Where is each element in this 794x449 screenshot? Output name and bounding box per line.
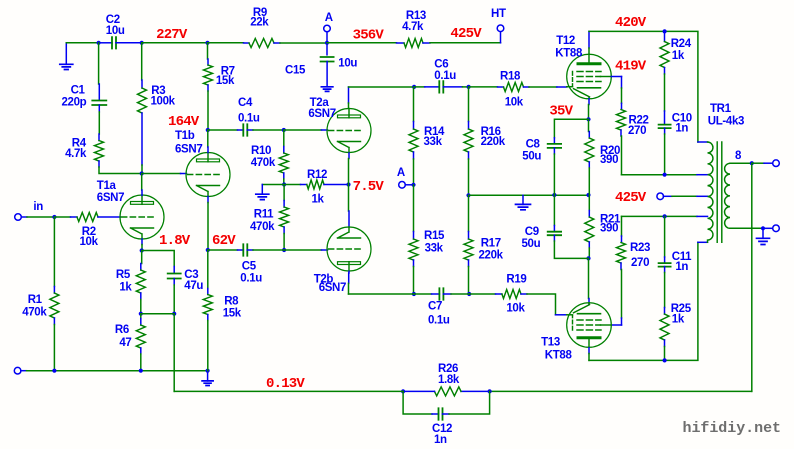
node R10 bottom bbox=[282, 182, 286, 186]
wire UL tap lower rail bbox=[622, 215, 698, 217]
svg-text:6SN7: 6SN7 bbox=[175, 144, 202, 156]
resistor R20 bbox=[588, 119, 590, 131]
resistor R7 bbox=[207, 43, 209, 59]
wire T2a anode lead bbox=[348, 87, 350, 103]
svg-text:C1: C1 bbox=[71, 85, 86, 97]
svg-text:C3: C3 bbox=[184, 269, 198, 281]
node R26 right bbox=[488, 389, 492, 393]
transformer TR1 primary bbox=[708, 142, 713, 242]
svg-text:470k: 470k bbox=[250, 221, 275, 233]
svg-text:10k: 10k bbox=[80, 236, 99, 248]
pentode T13 (mirrored) bbox=[567, 303, 612, 348]
node T1a cathode junction bbox=[140, 248, 144, 252]
wire input bbox=[21, 216, 27, 218]
node R26 left bbox=[401, 389, 405, 393]
pentode T12 bbox=[567, 54, 612, 99]
svg-text:10u: 10u bbox=[106, 25, 125, 37]
svg-text:in: in bbox=[33, 201, 43, 213]
resistor R8 bbox=[207, 250, 209, 289]
svg-text:R24: R24 bbox=[671, 38, 692, 50]
node R8 bottom ground bbox=[206, 369, 210, 373]
wire node A to R13 bbox=[327, 42, 397, 44]
resistor R13 bbox=[397, 42, 405, 44]
svg-text:10u: 10u bbox=[338, 57, 357, 69]
terminal in bbox=[15, 214, 22, 221]
wire rail to R9 bbox=[208, 42, 244, 44]
svg-text:R10: R10 bbox=[251, 145, 271, 157]
svg-text:0.1u: 0.1u bbox=[434, 70, 456, 82]
svg-text:33k: 33k bbox=[425, 243, 444, 255]
svg-text:C4: C4 bbox=[238, 97, 253, 109]
svg-text:390: 390 bbox=[600, 154, 618, 166]
capacitor C15 bbox=[326, 43, 328, 55]
ground (secondary) bbox=[762, 228, 764, 238]
wire R19 to T13 grid bbox=[527, 294, 556, 315]
svg-text:C6: C6 bbox=[434, 59, 448, 71]
wire to R18 bbox=[469, 86, 498, 88]
resistor R14 bbox=[413, 87, 415, 122]
wire T2b anode rail bbox=[349, 293, 414, 295]
svg-text:0.1u: 0.1u bbox=[238, 113, 260, 125]
wire T2b anode lead bbox=[348, 271, 350, 273]
triode T1b bbox=[186, 153, 230, 197]
wire secondary bottom bbox=[730, 227, 763, 229]
svg-text:1n: 1n bbox=[675, 261, 688, 273]
transformer TR1 secondary bbox=[725, 163, 730, 228]
wire center tap bbox=[663, 195, 672, 197]
svg-text:356V: 356V bbox=[353, 28, 385, 44]
svg-text:T12: T12 bbox=[556, 35, 575, 47]
node feedback node X right bbox=[172, 312, 176, 316]
wire T13 cathode lead bbox=[588, 258, 590, 298]
svg-text:50u: 50u bbox=[522, 238, 541, 250]
resistor R3 bbox=[141, 43, 143, 80]
resistor R11 bbox=[283, 185, 285, 201]
terminal output plus bbox=[752, 162, 764, 164]
node R6 bottom bbox=[139, 369, 143, 373]
resistor R17 bbox=[468, 195, 470, 231]
resistor R2 bbox=[71, 216, 78, 218]
svg-text:R6: R6 bbox=[115, 324, 129, 336]
terminal ground input bbox=[14, 367, 21, 374]
svg-text:227V: 227V bbox=[156, 27, 188, 43]
svg-text:164V: 164V bbox=[168, 114, 200, 130]
resistor R10 bbox=[283, 130, 285, 147]
node R20 R21 junction bbox=[586, 193, 590, 197]
transformer TR1 core bbox=[717, 142, 722, 242]
node R7 top junction bbox=[205, 41, 209, 45]
svg-text:7.5V: 7.5V bbox=[353, 179, 385, 195]
svg-text:470k: 470k bbox=[22, 307, 47, 319]
svg-text:R8: R8 bbox=[224, 296, 239, 308]
svg-text:R23: R23 bbox=[630, 242, 650, 254]
wire node X bbox=[141, 313, 174, 315]
node R16 bottom bbox=[466, 193, 470, 197]
resistor R5 bbox=[141, 251, 143, 264]
resistor R18 bbox=[498, 86, 504, 88]
wire C4 line to T2a grid bbox=[284, 129, 322, 131]
svg-text:420V: 420V bbox=[615, 15, 647, 31]
wire A to column bbox=[405, 184, 413, 186]
terminal HT bbox=[500, 32, 502, 43]
svg-text:A: A bbox=[325, 12, 333, 24]
node R10 top bbox=[282, 128, 286, 132]
node feedback node X left bbox=[139, 312, 143, 316]
wire R13 to HT bbox=[430, 42, 501, 44]
node C2 left junction bbox=[97, 41, 101, 45]
node 62V junction bbox=[206, 248, 210, 252]
node T1a anode junction bbox=[140, 171, 144, 175]
terminal A (top) bbox=[324, 25, 331, 32]
svg-text:425V: 425V bbox=[450, 26, 482, 42]
svg-text:50u: 50u bbox=[522, 151, 541, 163]
node C10 bottom bbox=[663, 173, 667, 177]
wire 227V rail left bbox=[66, 42, 98, 44]
svg-text:1k: 1k bbox=[672, 50, 685, 62]
resistor R16 bbox=[468, 87, 470, 122]
terminal A (mid) bbox=[399, 182, 406, 189]
node 35V junction bbox=[586, 117, 590, 121]
resistor R24 bbox=[664, 31, 666, 41]
wire T13 anode rail bbox=[589, 242, 698, 360]
wire UL tap upper rail bbox=[622, 174, 698, 176]
capacitor C4 bbox=[208, 129, 238, 131]
node input junction bbox=[52, 215, 56, 219]
wire R18 to T12 grid bbox=[529, 86, 557, 88]
svg-text:220k: 220k bbox=[481, 136, 506, 148]
wire T12 cathode lead bbox=[588, 99, 590, 105]
wire T12 g2 to R22 bbox=[611, 76, 621, 78]
wire cathode to C3 bbox=[142, 251, 175, 267]
wire T2a cathode lead bbox=[348, 153, 350, 159]
capacitor C5 bbox=[208, 249, 238, 251]
svg-text:419V: 419V bbox=[615, 59, 647, 75]
ground (bias rail) bbox=[522, 195, 524, 204]
node C9 bottom junction bbox=[586, 256, 590, 260]
wire feedback rail left bbox=[174, 390, 403, 392]
svg-text:1n: 1n bbox=[434, 434, 447, 446]
node 7.5V junction bbox=[346, 182, 350, 186]
capacitor C7 bbox=[414, 293, 432, 295]
wire T1a cathode lead bbox=[141, 239, 143, 245]
wire bias rail bbox=[469, 194, 589, 196]
node C8 bottom bbox=[552, 193, 556, 197]
wire T1b cathode lead bbox=[207, 197, 209, 203]
wire feedback rail right bbox=[490, 390, 752, 392]
resistor R6 bbox=[140, 314, 142, 319]
capacitor C8 bbox=[553, 138, 555, 144]
svg-text:R12: R12 bbox=[307, 169, 327, 181]
svg-text:hifidiy.net: hifidiy.net bbox=[683, 420, 781, 437]
svg-text:270: 270 bbox=[628, 125, 646, 137]
node R25 bottom bbox=[663, 358, 667, 362]
capacitor C11 bbox=[664, 216, 666, 257]
svg-text:6SN7: 6SN7 bbox=[97, 192, 124, 204]
wire feedback riser bbox=[173, 314, 175, 392]
svg-text:35V: 35V bbox=[549, 103, 573, 119]
ground (R12 rail) bbox=[262, 184, 284, 186]
capacitor C9 bbox=[553, 195, 555, 226]
resistor R19 bbox=[469, 293, 495, 295]
svg-text:R17: R17 bbox=[481, 238, 501, 250]
resistor R12 bbox=[284, 184, 300, 186]
resistor R23 bbox=[621, 216, 623, 236]
svg-text:T1b: T1b bbox=[175, 130, 195, 142]
svg-text:R19: R19 bbox=[506, 273, 526, 285]
svg-text:47: 47 bbox=[119, 337, 131, 349]
wire to R2 bbox=[54, 216, 70, 218]
svg-text:390: 390 bbox=[600, 223, 618, 235]
svg-text:100k: 100k bbox=[151, 96, 176, 108]
svg-text:T1a: T1a bbox=[97, 180, 117, 192]
svg-text:425V: 425V bbox=[615, 190, 647, 206]
node C11 top bbox=[663, 214, 667, 218]
svg-text:0.13V: 0.13V bbox=[266, 376, 305, 392]
svg-text:4.7k: 4.7k bbox=[65, 148, 87, 160]
wire R4 to T1a anode node bbox=[99, 167, 142, 174]
node secondary top junction bbox=[750, 161, 754, 165]
node R15 bottom bbox=[412, 292, 416, 296]
svg-text:R11: R11 bbox=[254, 209, 274, 221]
svg-text:C8: C8 bbox=[526, 138, 541, 150]
svg-text:1k: 1k bbox=[119, 282, 132, 294]
wire R9 to node A bbox=[280, 42, 327, 44]
svg-text:10k: 10k bbox=[505, 97, 524, 109]
svg-text:15k: 15k bbox=[216, 75, 235, 87]
svg-text:R18: R18 bbox=[500, 71, 521, 83]
terminal output minus bbox=[763, 227, 773, 229]
node R16 top bbox=[467, 85, 471, 89]
svg-text:R15: R15 bbox=[424, 230, 445, 242]
node R14 top bbox=[412, 85, 416, 89]
svg-text:4.7k: 4.7k bbox=[402, 21, 424, 33]
capacitor C2 bbox=[99, 42, 112, 44]
svg-text:1n: 1n bbox=[675, 122, 688, 134]
wire 7.5V to T2b cathode bbox=[348, 185, 350, 212]
svg-text:0.1u: 0.1u bbox=[428, 315, 450, 327]
wire T13 anode lead bbox=[588, 348, 590, 354]
svg-text:1.8V: 1.8V bbox=[159, 233, 191, 249]
resistor R15 bbox=[413, 185, 415, 232]
wire T12 anode lead bbox=[588, 31, 590, 48]
svg-text:TR1: TR1 bbox=[710, 103, 732, 115]
resistor R26 bbox=[461, 390, 490, 392]
svg-text:KT88: KT88 bbox=[555, 47, 583, 59]
triode T2a bbox=[327, 109, 371, 153]
svg-text:A: A bbox=[397, 167, 405, 179]
svg-text:C9: C9 bbox=[525, 226, 539, 238]
svg-text:R5: R5 bbox=[116, 269, 131, 281]
svg-text:6SN7: 6SN7 bbox=[308, 108, 335, 120]
svg-text:220k: 220k bbox=[479, 250, 504, 262]
capacitor C1 bbox=[98, 43, 100, 84]
svg-text:R13: R13 bbox=[406, 10, 426, 22]
svg-text:KT88: KT88 bbox=[545, 350, 573, 362]
svg-text:C5: C5 bbox=[242, 260, 257, 272]
svg-text:C15: C15 bbox=[285, 65, 306, 77]
wire anode node to T1b grid bbox=[142, 173, 181, 175]
node T1b anode junction bbox=[206, 128, 210, 132]
svg-text:T13: T13 bbox=[541, 336, 560, 348]
resistor R4 bbox=[98, 134, 100, 141]
ground (top left) bbox=[65, 43, 67, 65]
wire 227V rail bbox=[142, 42, 208, 44]
svg-text:1k: 1k bbox=[312, 194, 325, 206]
svg-text:15k: 15k bbox=[223, 308, 242, 320]
svg-text:47u: 47u bbox=[184, 280, 203, 292]
svg-text:C7: C7 bbox=[428, 301, 442, 313]
resistor R22 bbox=[621, 103, 623, 109]
svg-text:470k: 470k bbox=[251, 157, 276, 169]
wire 420V rail bbox=[589, 31, 698, 142]
capacitor C6 bbox=[414, 86, 425, 88]
wire C5 line to T2b grid bbox=[284, 249, 321, 251]
svg-text:0.1u: 0.1u bbox=[240, 272, 262, 284]
terminal 425V center tap bbox=[657, 193, 664, 200]
resistor R21 bbox=[588, 195, 590, 211]
node R17 bottom bbox=[467, 292, 471, 296]
wire secondary top bbox=[730, 162, 752, 164]
resistor R9 bbox=[244, 42, 250, 44]
svg-text:33k: 33k bbox=[424, 136, 443, 148]
node A junction bbox=[325, 41, 329, 45]
svg-text:22k: 22k bbox=[250, 17, 269, 29]
svg-text:1k: 1k bbox=[672, 314, 685, 326]
wire ground rail bbox=[21, 370, 27, 372]
triode T1a bbox=[120, 195, 164, 239]
node R11 bottom bbox=[282, 248, 286, 252]
wire T2a anode rail bbox=[349, 86, 415, 88]
wire T1b anode lead bbox=[207, 130, 209, 147]
capacitor C3 bbox=[168, 274, 181, 279]
resistor R1 bbox=[53, 217, 55, 287]
node R1 bottom bbox=[52, 369, 56, 373]
wire 35V to C8 bbox=[554, 119, 588, 138]
wire T1a anode lead bbox=[141, 174, 143, 191]
svg-text:220p: 220p bbox=[62, 97, 87, 109]
svg-text:10k: 10k bbox=[506, 303, 525, 315]
capacitor C12 bbox=[403, 391, 432, 414]
wire feedback drop bbox=[751, 163, 753, 391]
triode T2b (mirrored) bbox=[327, 227, 371, 271]
svg-text:T2a: T2a bbox=[310, 97, 330, 109]
ground (R8) bbox=[207, 373, 209, 381]
svg-text:HT: HT bbox=[491, 8, 506, 20]
node 227V junction bbox=[140, 41, 144, 45]
svg-text:6SN7: 6SN7 bbox=[319, 282, 346, 294]
wire R23 to T13 g2 bbox=[621, 318, 623, 325]
resistor R25 bbox=[664, 308, 666, 315]
svg-text:62V: 62V bbox=[212, 233, 236, 249]
svg-text:R1: R1 bbox=[28, 294, 43, 306]
capacitor C10 bbox=[659, 125, 671, 129]
svg-text:1.8k: 1.8k bbox=[438, 374, 460, 386]
node A mid junction bbox=[411, 183, 415, 187]
svg-text:UL-4k3: UL-4k3 bbox=[708, 115, 744, 127]
svg-text:270: 270 bbox=[631, 257, 649, 269]
svg-text:8: 8 bbox=[735, 150, 742, 162]
node secondary bottom junction bbox=[761, 226, 765, 230]
node R24 top bbox=[663, 29, 667, 33]
